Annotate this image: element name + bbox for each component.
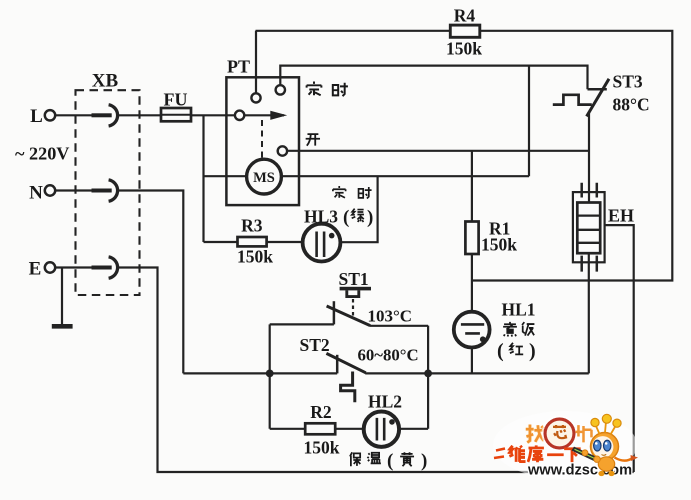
svg-text:150k: 150k (481, 235, 517, 255)
wire HL1 down (471, 348, 473, 374)
wire L to plug (54, 114, 92, 116)
wire EH sheath to earth run (605, 225, 634, 472)
label ST2 (300, 335, 330, 355)
PT terminal pin B (276, 85, 285, 94)
motor MS (247, 159, 282, 194)
switch ST2 blade (326, 353, 365, 372)
svg-text:103°C: 103°C (368, 307, 413, 326)
svg-text:E: E (29, 259, 42, 280)
PT terminal pin C (235, 111, 244, 120)
watermark speed marks (494, 449, 505, 459)
svg-text:): ) (421, 451, 427, 472)
PT terminal pin A (251, 93, 260, 102)
wire N to plug (54, 189, 92, 191)
label E (29, 259, 42, 280)
svg-text:88°C: 88°C (613, 95, 650, 115)
PT terminal pin D (278, 146, 287, 155)
XB connector dashed box (76, 90, 140, 295)
wire N to right and down (117, 191, 183, 374)
switch ST1 post (333, 301, 336, 324)
node dot left (266, 370, 274, 378)
label R3 (241, 216, 263, 236)
label PT (227, 57, 250, 77)
resistor R1 column wire (471, 151, 473, 222)
watermark mascot tail (615, 455, 639, 461)
connector XB pin E (92, 266, 112, 270)
thermostat ST3 bimetal step (553, 95, 592, 105)
lamp HL1 (454, 312, 490, 348)
wire ST1 row left (270, 323, 334, 325)
svg-text:150k: 150k (304, 438, 340, 458)
connector XB socket N (109, 180, 118, 201)
label dingshi HL3 (333, 186, 372, 199)
watermark pian (576, 425, 592, 442)
wire R2 to HL2 (335, 428, 363, 430)
svg-text:ST2: ST2 (300, 335, 330, 355)
wire pin A up to R4 line (255, 31, 257, 93)
resistor R2 (305, 423, 335, 434)
label baowen keep-warm yellow (350, 452, 381, 466)
heater EH sheath (573, 192, 605, 262)
svg-text:ST1: ST1 (339, 269, 369, 289)
resistor R1 (465, 222, 478, 255)
resistor R4 (450, 25, 480, 37)
svg-text:): ) (367, 207, 373, 228)
wire top net from pin A to R4 (256, 30, 451, 32)
svg-text:HL3: HL3 (304, 207, 338, 227)
wire HL2 to right vertical (399, 428, 428, 430)
wire MS right to riser (282, 175, 530, 177)
svg-text:R2: R2 (310, 402, 331, 422)
label R2 value (304, 438, 340, 458)
fuse FU (161, 108, 191, 121)
label MS (253, 170, 275, 186)
wire E to plug (54, 266, 92, 268)
wire N row into switch block (183, 372, 337, 374)
svg-text:EH: EH (608, 206, 634, 226)
label R1 (489, 219, 510, 239)
switch ST1 blade (327, 306, 371, 326)
label HL2 (368, 392, 402, 412)
svg-text:R4: R4 (454, 6, 476, 26)
label dingshi top (307, 82, 348, 97)
PT wiper arrow (244, 111, 287, 120)
watermark mascot crown (596, 422, 616, 435)
connector XB pin L (92, 113, 112, 117)
svg-text:(: ( (343, 207, 349, 228)
thermostat ST3 blade (587, 79, 609, 117)
label R2 (310, 402, 331, 422)
svg-text:ST3: ST3 (613, 72, 643, 92)
label hong red (497, 340, 504, 362)
wire R3 row (204, 241, 238, 243)
wire FU to PT (191, 114, 235, 116)
wire HL3 right then up to MS net (341, 176, 378, 242)
watermark mascot head (591, 433, 619, 461)
svg-text:FU: FU (164, 90, 188, 110)
svg-text:150k: 150k (237, 247, 273, 267)
watermark mascot body (598, 457, 614, 476)
label ST1 temp (368, 307, 413, 326)
wire E right then down then bottom run (117, 268, 633, 473)
label ST2 temp (358, 346, 419, 365)
label EH (608, 206, 634, 226)
wire ST2 row right (365, 372, 589, 374)
wire switch block left vertical (269, 324, 271, 428)
wire switch block right vertical (427, 326, 429, 429)
label ST3 (613, 72, 643, 92)
svg-text:L: L (30, 106, 43, 127)
label R4 (454, 6, 476, 26)
wire L socket to FU (117, 114, 161, 116)
svg-text:150k: 150k (446, 39, 482, 59)
svg-text:(: ( (387, 451, 393, 472)
connector XB socket E (109, 257, 118, 278)
terminal N (45, 185, 55, 195)
label HL3 (304, 207, 349, 229)
node dot right (424, 370, 432, 378)
label N (29, 183, 43, 204)
watermark weiku yixia (509, 445, 580, 462)
label HL1 (502, 300, 536, 320)
wire ST3 down to EH (588, 112, 590, 203)
svg-text:www.dzsc.com: www.dzsc.com (527, 463, 632, 479)
label ~220V (15, 144, 69, 164)
label R1 value (481, 235, 517, 255)
watermark mascot eyes (594, 440, 611, 455)
label kai (306, 134, 320, 146)
svg-text:(: ( (497, 340, 504, 362)
watermark mascot pen (572, 447, 601, 463)
terminal L (45, 110, 55, 120)
svg-text:): ) (529, 340, 536, 362)
svg-text:HL2: HL2 (368, 392, 402, 412)
timer PT box (226, 77, 299, 205)
label lv paren (367, 207, 373, 228)
watermark url (527, 463, 632, 479)
ground (52, 324, 73, 329)
svg-text:~ 220V: ~ 220V (15, 144, 69, 164)
svg-text:N: N (29, 183, 43, 204)
wire lamp row left (270, 428, 306, 430)
svg-text:XB: XB (92, 71, 119, 92)
label FU (164, 90, 188, 110)
label R4 value (446, 39, 482, 59)
watermark zhao (526, 425, 544, 443)
heater EH pins (582, 183, 597, 272)
lamp HL2 (364, 412, 399, 447)
watermark magnifier (543, 417, 577, 451)
watermark halo (493, 411, 637, 479)
label ST1 (339, 269, 369, 289)
label R3 value (237, 247, 273, 267)
wire node junction down from L line (202, 115, 204, 242)
svg-text:60~80°C: 60~80°C (358, 346, 419, 365)
wire riser timer-net to MS-net (528, 66, 530, 177)
svg-text:MS: MS (253, 170, 275, 186)
wire timer net: pin B up, right to ST3 (280, 66, 587, 90)
wire EH bottom down to N-row (588, 253, 590, 373)
resistor R3 (238, 237, 267, 246)
terminal E (45, 262, 55, 272)
wire R3 to HL3 (267, 241, 303, 243)
wire MS left (204, 175, 247, 177)
switch ST2 post (336, 355, 339, 374)
svg-text:PT: PT (227, 57, 250, 77)
switch ST1 button dashed stem (352, 299, 354, 316)
label L (30, 106, 43, 127)
switch ST1 button (340, 287, 371, 297)
wire ground branch (61, 268, 63, 325)
connector XB pin N (92, 189, 112, 193)
PT dashed link to motor (261, 120, 263, 158)
thermostat ST3 fixed contact (588, 88, 607, 91)
label zhufan cooking (503, 322, 534, 337)
switch ST2 bimetal step (341, 372, 355, 403)
connector XB socket L (109, 105, 118, 126)
label lv green (352, 209, 364, 222)
wire ST1 row right (370, 325, 428, 327)
wire R4 right, down right edge, left to R1 column (472, 31, 672, 281)
label ST3 temp (613, 95, 650, 115)
watermark xin (553, 425, 566, 438)
heater EH element (577, 203, 600, 254)
svg-text:R3: R3 (241, 216, 263, 236)
label XB (92, 71, 119, 92)
wire R1 to HL1 (471, 254, 473, 312)
lamp HL3 (303, 224, 341, 262)
svg-text:HL1: HL1 (502, 300, 536, 320)
wire kai net from pin D to EH column (287, 150, 589, 152)
